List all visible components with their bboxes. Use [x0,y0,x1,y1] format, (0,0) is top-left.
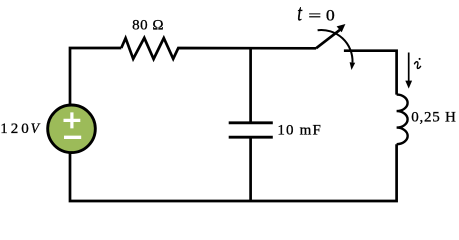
svg-text:10 mF: 10 mF [277,123,320,139]
svg-text:=: = [308,8,321,24]
svg-text:80 Ω: 80 Ω [132,18,163,34]
svg-text:V: V [31,121,41,137]
svg-text:t: t [297,1,303,26]
svg-text:120: 120 [0,121,29,137]
svg-text:0: 0 [326,7,335,24]
svg-text:0,25 H: 0,25 H [411,109,456,125]
